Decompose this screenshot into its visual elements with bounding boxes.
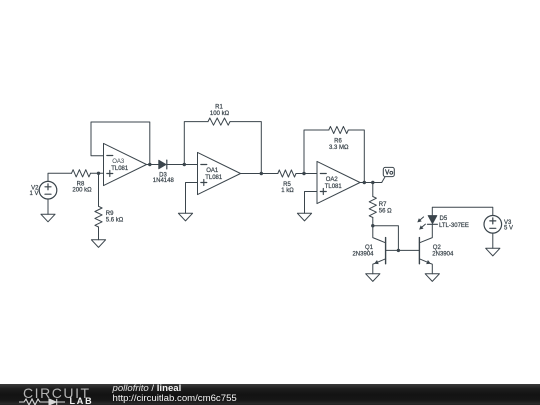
svg-text:Q1: Q1 [365, 245, 374, 251]
svg-text:100 kΩ: 100 kΩ [210, 111, 230, 117]
svg-text:OA1: OA1 [206, 168, 219, 174]
svg-text:OA2: OA2 [326, 177, 339, 183]
svg-text:5 V: 5 V [504, 226, 513, 232]
svg-text:2N3904: 2N3904 [432, 252, 454, 258]
svg-text:R1: R1 [215, 104, 223, 110]
svg-text:TL081: TL081 [205, 175, 223, 181]
svg-text:R9: R9 [106, 211, 114, 217]
svg-text:1N4148: 1N4148 [153, 178, 175, 184]
svg-text:1 V: 1 V [29, 191, 38, 197]
svg-text:200 kΩ: 200 kΩ [72, 187, 92, 193]
svg-text:56 Ω: 56 Ω [379, 209, 392, 215]
svg-text:3.3 MΩ: 3.3 MΩ [329, 145, 349, 151]
svg-text:TL081: TL081 [325, 184, 343, 190]
svg-text:TL081: TL081 [111, 166, 129, 172]
svg-text:Q2: Q2 [433, 245, 442, 251]
svg-text:R6: R6 [334, 138, 342, 144]
svg-text:5.6 kΩ: 5.6 kΩ [106, 218, 124, 224]
svg-text:D5: D5 [440, 216, 448, 222]
svg-text:1 kΩ: 1 kΩ [281, 188, 294, 194]
svg-text:R7: R7 [379, 202, 387, 208]
svg-text:2N3904: 2N3904 [352, 252, 374, 258]
svg-text:LTL-307EE: LTL-307EE [439, 223, 469, 229]
svg-text:OA3: OA3 [112, 159, 125, 165]
